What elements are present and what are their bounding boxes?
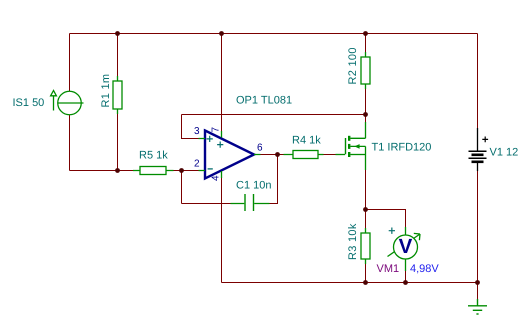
wire R1 top lead to rail (117, 34, 119, 77)
svg-text:R3 10k: R3 10k (347, 223, 359, 260)
svg-text:4,98V: 4,98V (410, 263, 439, 275)
node pin2 (179, 168, 184, 173)
battery V1 (469, 128, 487, 171)
node pin6 (275, 152, 280, 157)
svg-text:4: 4 (211, 175, 222, 181)
wire R3 node to R3 (365, 210, 367, 229)
wire ground stub (477, 283, 479, 300)
svg-text:VM1: VM1 (377, 263, 400, 275)
wire pin6 to R4 (261, 154, 284, 156)
svg-text:2: 2 (194, 159, 200, 170)
wire R1 bottom to left row (117, 114, 119, 171)
transistor T1 (336, 122, 366, 170)
wire IS1 bottom to left row (69, 115, 71, 171)
wire R2 top lead to rail (365, 34, 367, 53)
wire drain node to T1 (365, 115, 367, 123)
resistor R1 (113, 76, 122, 114)
svg-text:C1 10n: C1 10n (236, 180, 271, 192)
svg-text:R2 100: R2 100 (347, 47, 359, 84)
svg-text:V: V (399, 235, 413, 258)
opamp plus input marker (207, 136, 213, 142)
node top rail pin7 (219, 31, 224, 36)
node top rail R1 (115, 31, 120, 36)
svg-text:IS1 50: IS1 50 (13, 97, 45, 109)
resistor R4 (284, 151, 324, 159)
current source IS1 (51, 91, 84, 115)
svg-text:R5 1k: R5 1k (139, 150, 168, 162)
wire R3 node to VM1 top (366, 210, 406, 228)
op-amp OP1 (199, 131, 261, 179)
wire R4 to T1 gate (324, 154, 336, 156)
node bottom rail R3 (363, 280, 368, 285)
capacitor C1 (231, 194, 270, 211)
svg-text:3: 3 (194, 126, 200, 137)
wire VM1 bottom to bottom rail (405, 271, 407, 283)
wire pin7 supply drop (221, 34, 223, 132)
node source R3 (363, 207, 368, 212)
wire T1 source down to R3 node (365, 170, 367, 210)
wire pin4 down to bottom rail (221, 178, 223, 283)
wire pin2 node down to C1 row (181, 171, 183, 204)
opamp supply plus marker (217, 142, 223, 148)
wire C1 right to pin6 node (270, 155, 278, 204)
wire right column top rail to battery (477, 34, 479, 129)
wire R3 bottom to bottom rail (365, 264, 367, 283)
node bottom rail VM1 (403, 280, 408, 285)
node left row R1 (115, 168, 120, 173)
wire R2 bottom to drain node (365, 89, 367, 115)
wire C1 row left (182, 203, 231, 205)
svg-text:R4 1k: R4 1k (292, 135, 321, 147)
wire left column from top rail to IS1 (69, 34, 71, 92)
wire battery bottom to bottom rail (477, 171, 479, 283)
voltmeter plus marker (389, 228, 395, 234)
voltmeter VM1 (388, 227, 421, 271)
opamp minus input marker (208, 168, 213, 170)
node bottom rail ground (475, 280, 480, 285)
wire left row to R5 (70, 170, 134, 172)
wire feedback left vertical to pin3 (182, 115, 199, 139)
svg-text:OP1 TL081: OP1 TL081 (236, 95, 292, 107)
ground (468, 299, 487, 314)
resistor R5 (133, 167, 174, 175)
svg-text:R1 1m: R1 1m (100, 74, 112, 108)
wire R5 right to pin2 node (174, 170, 199, 172)
resistor R2 (361, 52, 370, 89)
wire feedback top horizontal (182, 114, 366, 116)
wire bottom rail (222, 282, 478, 284)
battery plus marker (482, 137, 488, 143)
svg-text:7: 7 (211, 127, 222, 133)
node top rail R2 (363, 31, 368, 36)
svg-text:6: 6 (257, 143, 263, 154)
resistor R3 (361, 228, 370, 264)
node drain (363, 112, 368, 117)
svg-text:T1 IRFD120: T1 IRFD120 (372, 142, 432, 154)
svg-text:V1 12: V1 12 (490, 147, 519, 159)
wire top rail (70, 33, 478, 35)
